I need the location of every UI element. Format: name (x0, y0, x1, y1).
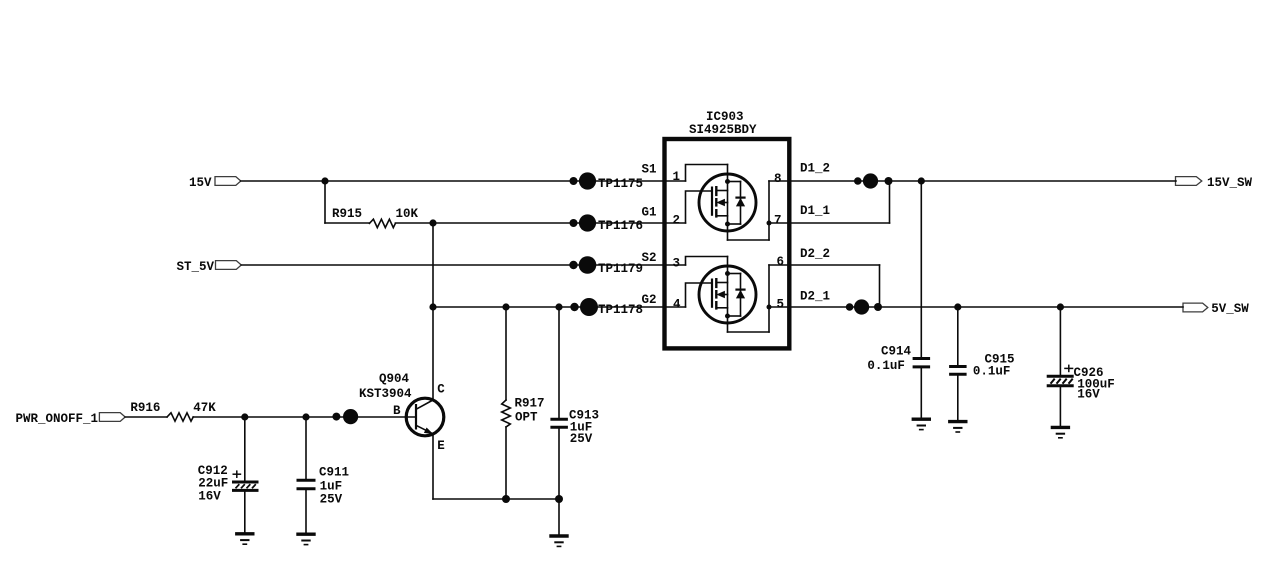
svg-text:6: 6 (777, 255, 785, 269)
port PWR_ONOFF_1 (15, 412, 125, 426)
svg-text:G1: G1 (641, 206, 656, 220)
wire: R915 tap vertical drop (324, 181, 326, 223)
svg-text:C911: C911 (319, 465, 349, 479)
junction: emitter rail at C913 (555, 495, 563, 503)
junction: C911 tap on base line (302, 413, 309, 420)
svg-text:TP1175: TP1175 (598, 177, 643, 191)
svg-text:5: 5 (777, 297, 785, 311)
capacitor C914 0.1uF (867, 181, 930, 417)
junction: C926 tap on 5V_SW line (1057, 303, 1064, 310)
wire: R916 to Q904 base (193, 416, 416, 418)
svg-text:0.1uF: 0.1uF (867, 359, 905, 373)
svg-text:7: 7 (774, 214, 782, 228)
test point TP1176 on G1 (570, 214, 644, 233)
svg-text:0.1uF: 0.1uF (973, 365, 1011, 379)
svg-text:TP1178: TP1178 (598, 303, 643, 317)
svg-text:R915: R915 (332, 207, 362, 221)
junction: C915 tap on 5V_SW line (954, 303, 961, 310)
junction: D1_1 tie on 15V_SW line (885, 177, 893, 185)
svg-text:TP1179: TP1179 (598, 262, 643, 276)
capacitor C912 22uF 16V (electrolytic) (198, 417, 259, 532)
junction: G2 at C913 (555, 303, 562, 310)
svg-text:G2: G2 (641, 293, 656, 307)
wire net G1: R915 to IC903 pin 2 (395, 222, 685, 224)
svg-text:S2: S2 (641, 251, 656, 265)
svg-text:16V: 16V (198, 490, 221, 504)
wire net S1: 15V port to IC903 pin 1 (241, 180, 686, 182)
wire net D1_2: IC903 pin 8 to 15V_SW port (769, 180, 1176, 182)
capacitor C911 1uF 25V (297, 417, 350, 532)
test point TP1179 on S2 (569, 256, 643, 276)
resistor R916 47K (130, 401, 216, 421)
resistor R917 OPT (vertical) (502, 307, 545, 499)
port 15V_SW (1176, 176, 1253, 190)
junction: gate bus tap on G1 line (429, 219, 436, 226)
svg-text:KST3904: KST3904 (359, 387, 412, 401)
wire net S2: ST_5V port to IC903 pin 3 (241, 264, 685, 266)
wire: R915 left lead (325, 222, 369, 224)
svg-text:TP1176: TP1176 (598, 219, 643, 233)
ground at C914 (912, 419, 931, 429)
ground at C915 (948, 422, 967, 432)
junction: C912 tap on base line (241, 413, 248, 420)
resistor R915 10K (332, 207, 419, 228)
junction: G2 at R917 (502, 303, 509, 310)
test point TP1178 on G2 (570, 298, 643, 317)
svg-text:25V: 25V (320, 493, 343, 507)
svg-text:R916: R916 (130, 401, 160, 415)
ground at C926 (1051, 427, 1070, 437)
svg-text:SI4925BDY: SI4925BDY (689, 123, 757, 137)
svg-text:C914: C914 (881, 344, 912, 358)
svg-text:1uF: 1uF (320, 480, 343, 494)
svg-text:16V: 16V (1077, 388, 1100, 402)
svg-text:R917: R917 (515, 397, 545, 411)
port 5V_SW (1183, 302, 1249, 316)
svg-text:D2_1: D2_1 (800, 289, 830, 303)
svg-text:8: 8 (774, 172, 782, 186)
capacitor C926 100uF 16V (electrolytic) (1047, 307, 1115, 426)
svg-text:Q904: Q904 (379, 372, 410, 386)
svg-text:1: 1 (673, 170, 681, 184)
ground at C912 (235, 534, 254, 544)
svg-text:15V_SW: 15V_SW (1207, 176, 1253, 190)
capacitor C915 0.1uF (949, 307, 1014, 420)
svg-text:S1: S1 (641, 163, 656, 177)
wire net D1_1: IC903 pin 7 up to 15V_SW (769, 181, 890, 223)
junction: D2_2 tie on 5V_SW line (874, 303, 882, 311)
wire net G2: gate bus to IC903 pin 4 (433, 306, 686, 308)
svg-text:C: C (437, 382, 445, 396)
capacitor C913 1uF 25V (550, 307, 599, 534)
port 15V (189, 176, 241, 190)
test point (unlabeled) at Q904 base (332, 409, 358, 424)
wire net D2_2: IC903 pin 6 down to 5V_SW (769, 265, 880, 307)
p-channel MOSFET (bottom half of IC903) with body diode (686, 257, 772, 333)
ground at C913 (549, 536, 568, 546)
svg-text:25V: 25V (570, 432, 593, 446)
wire: Q904 emitter rail (433, 434, 559, 500)
test point (unlabeled) on 15V_SW line (854, 173, 878, 188)
svg-text:B: B (393, 404, 401, 418)
svg-text:D1_2: D1_2 (800, 162, 830, 176)
junction: emitter rail at R917 (502, 495, 510, 503)
test point TP1175 on S1 (570, 172, 644, 191)
wire net D2_1: IC903 pin 5 to 5V_SW port (769, 306, 1183, 308)
svg-text:ST_5V: ST_5V (176, 260, 214, 274)
svg-text:PWR_ONOFF_1: PWR_ONOFF_1 (15, 412, 98, 426)
svg-text:3: 3 (673, 257, 681, 271)
wire: PWR_ONOFF_1 port to R916 (125, 416, 167, 418)
svg-text:2: 2 (673, 214, 681, 228)
junction: C914 tap on 15V_SW line (918, 177, 925, 184)
svg-text:15V: 15V (189, 176, 212, 190)
port ST_5V (176, 260, 241, 274)
test point (unlabeled) on 5V_SW line (846, 299, 869, 314)
junction: G2 at collector node (429, 303, 436, 310)
svg-text:D1_1: D1_1 (800, 204, 830, 218)
wire: Q904 collector up to gate bus (432, 307, 434, 400)
transistor Q904 KST3904 (NPN) (359, 372, 445, 453)
svg-text:E: E (437, 439, 445, 453)
IC U: IC903 SI4925BDY outline (665, 110, 790, 348)
svg-text:47K: 47K (193, 401, 216, 415)
svg-text:10K: 10K (396, 207, 419, 221)
svg-text:5V_SW: 5V_SW (1211, 302, 1249, 316)
ground at C911 (296, 534, 315, 544)
svg-text:OPT: OPT (515, 411, 538, 425)
junction: R915 tap on 15V line (321, 177, 328, 184)
wire: gate bus vertical G1 to G2 (432, 223, 434, 307)
svg-text:D2_2: D2_2 (800, 247, 830, 261)
p-channel MOSFET (top half of IC903) with body diode (686, 165, 772, 241)
svg-text:4: 4 (673, 298, 681, 312)
